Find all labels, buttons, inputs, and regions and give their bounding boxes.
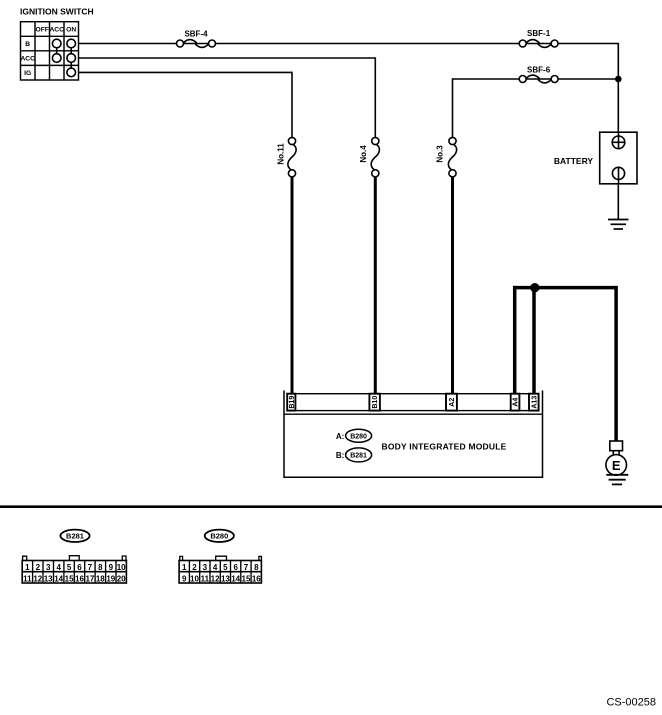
svg-text:2: 2 <box>36 563 41 572</box>
svg-text:No.4: No.4 <box>359 145 368 163</box>
svg-text:20: 20 <box>117 574 126 583</box>
svg-text:No.3: No.3 <box>435 145 444 163</box>
svg-text:SBF-4: SBF-4 <box>184 30 208 39</box>
svg-text:No.11: No.11 <box>276 143 285 165</box>
svg-text:A4: A4 <box>513 398 520 407</box>
svg-text:5: 5 <box>223 563 228 572</box>
svg-text:8: 8 <box>254 563 259 572</box>
svg-text:9: 9 <box>182 574 187 583</box>
svg-text:19: 19 <box>106 574 115 583</box>
svg-text:IG: IG <box>24 70 31 77</box>
svg-text:B10: B10 <box>372 396 379 409</box>
svg-text:B:: B: <box>336 451 344 460</box>
svg-text:B: B <box>25 41 30 48</box>
svg-text:15: 15 <box>65 574 74 583</box>
svg-text:7: 7 <box>88 563 93 572</box>
svg-text:ACC: ACC <box>49 27 64 34</box>
svg-text:3: 3 <box>203 563 208 572</box>
svg-text:SBF-1: SBF-1 <box>527 29 551 38</box>
svg-text:13: 13 <box>44 574 53 583</box>
svg-text:B280: B280 <box>350 433 367 440</box>
svg-text:1: 1 <box>25 563 30 572</box>
svg-text:10: 10 <box>190 574 199 583</box>
svg-text:A2: A2 <box>449 398 456 407</box>
svg-text:4: 4 <box>56 563 61 572</box>
svg-text:8: 8 <box>98 563 103 572</box>
svg-text:6: 6 <box>77 563 82 572</box>
svg-text:16: 16 <box>252 574 261 583</box>
svg-text:B281: B281 <box>66 532 84 541</box>
svg-text:12: 12 <box>33 574 42 583</box>
svg-text:16: 16 <box>75 574 84 583</box>
svg-text:6: 6 <box>233 563 238 572</box>
svg-text:ACC: ACC <box>20 56 35 63</box>
svg-text:14: 14 <box>231 574 240 583</box>
svg-text:A13: A13 <box>531 396 538 409</box>
svg-text:OFF: OFF <box>36 27 49 34</box>
svg-text:11: 11 <box>23 574 32 583</box>
svg-text:B281: B281 <box>350 453 367 460</box>
svg-text:11: 11 <box>201 574 210 583</box>
svg-text:IGNITION SWITCH: IGNITION SWITCH <box>20 7 94 17</box>
svg-text:3: 3 <box>46 563 51 572</box>
svg-text:SBF-6: SBF-6 <box>527 66 551 75</box>
svg-text:4: 4 <box>213 563 218 572</box>
svg-text:18: 18 <box>96 574 105 583</box>
svg-text:5: 5 <box>67 563 72 572</box>
svg-text:14: 14 <box>54 574 63 583</box>
svg-text:15: 15 <box>242 574 251 583</box>
svg-text:2: 2 <box>192 563 197 572</box>
svg-text:13: 13 <box>221 574 230 583</box>
svg-text:E: E <box>612 458 621 473</box>
svg-text:1: 1 <box>182 563 187 572</box>
svg-text:9: 9 <box>109 563 114 572</box>
svg-text:10: 10 <box>117 563 126 572</box>
svg-text:BODY INTEGRATED MODULE: BODY INTEGRATED MODULE <box>382 442 507 452</box>
svg-text:7: 7 <box>244 563 249 572</box>
svg-text:17: 17 <box>85 574 94 583</box>
svg-text:ON: ON <box>66 27 76 34</box>
svg-text:CS-00258: CS-00258 <box>606 697 656 709</box>
svg-text:12: 12 <box>211 574 220 583</box>
svg-text:BATTERY: BATTERY <box>554 156 594 166</box>
svg-text:B280: B280 <box>210 532 228 541</box>
svg-text:B19: B19 <box>289 396 296 409</box>
svg-text:A:: A: <box>336 432 344 441</box>
